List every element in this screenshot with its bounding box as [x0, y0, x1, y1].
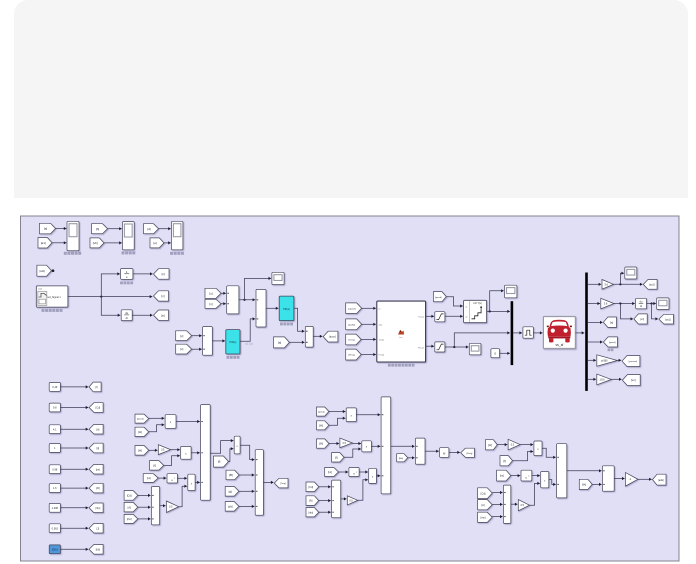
constant block 9.8: [49, 403, 60, 412]
svg-text:3.6: 3.6: [604, 282, 608, 286]
from tag [Preq] plant: [346, 349, 361, 360]
wire productA4 to muxC: [240, 445, 254, 459]
constant block 1: [49, 444, 60, 453]
svg-text:[Treq]: [Treq]: [280, 482, 286, 485]
wire gainC3 to [adis]: [638, 478, 652, 480]
wire mux3 to PID T: [212, 340, 225, 342]
svg-text:[J]: [J]: [97, 527, 100, 530]
wire [rho] to muxB: [138, 518, 151, 520]
wire constant to bus bar1: [500, 352, 510, 354]
wire productA2 to muxA: [191, 452, 200, 454]
integrator block 1/s: [121, 269, 133, 280]
goto tag [f] const: [89, 382, 101, 392]
wire gainC2 to productC2: [530, 483, 540, 505]
from tag [Nb] grpB: [397, 454, 408, 462]
svg-text:[rho]: [rho]: [308, 511, 313, 514]
wire productA1 to muxA: [176, 421, 200, 423]
wire bar2 out6: [588, 378, 596, 380]
svg-text:[d]: [d]: [147, 227, 151, 231]
svg-text:3.6: 3.6: [604, 301, 608, 305]
product block B2: [362, 441, 372, 452]
goto tag [yawrate]: [622, 356, 640, 367]
from tag [H]3 grpC: [579, 479, 592, 489]
from tag [a] group1: [40, 223, 56, 234]
svg-text:1/3.6: 1/3.6: [599, 379, 605, 381]
wire [Cd] to muxB: [138, 494, 151, 496]
wire [e] to scope3: [164, 242, 171, 244]
from tag [speed] lookup: [433, 292, 446, 302]
scope group1: [67, 221, 79, 250]
svg-text:[pedle]: [pedle]: [348, 324, 355, 326]
svg-text:[vx]: [vx]: [328, 470, 332, 474]
constant block 0.363: [49, 524, 60, 533]
svg-text:9.8: 9.8: [53, 407, 57, 410]
svg-text:[vx]: [vx]: [631, 378, 636, 382]
wire builder to [v]: [68, 296, 152, 298]
mux F: [415, 438, 425, 464]
svg-text:[speed]: [speed]: [348, 308, 356, 310]
product block A2: [181, 446, 191, 459]
svg-text:Treq1: Treq1: [379, 338, 385, 341]
svg-text:2: 2: [174, 478, 175, 480]
wire [a] to mux4: [289, 341, 304, 343]
wire [A] to muxE: [319, 500, 331, 502]
label under PID T: [227, 356, 230, 359]
wire sfun Treq1 to saturation1: [426, 315, 434, 317]
scope group2: [122, 222, 134, 250]
wire bar2 out1: [588, 283, 601, 285]
label under S-function: [388, 364, 391, 367]
from tag [H] grpB: [317, 421, 329, 430]
svg-text:[Cd]: [Cd]: [96, 407, 101, 410]
product block B1: [346, 408, 356, 422]
wire gain to [yawrate]: [617, 359, 621, 361]
wire [B] to muxC: [239, 474, 254, 476]
gain 0.5 C2: [518, 500, 529, 511]
wire saturation2 to scope s3: [445, 346, 469, 348]
wire muxF to blockM: [425, 450, 439, 452]
from tag [d] group3: [144, 224, 159, 234]
svg-text:[rho]: [rho]: [481, 516, 486, 519]
wire [H]2 to gainB1: [329, 443, 339, 445]
wire [pedle] to sfun: [362, 323, 376, 325]
wire [v] to mux1: [221, 303, 226, 305]
vertical mux A: [201, 405, 211, 501]
goto tag [ax1] out2: [659, 314, 674, 324]
wire constant 4.1 to [A]: [60, 428, 88, 430]
constant block 0.49: [49, 383, 60, 392]
label under integrator: [120, 282, 123, 285]
svg-text:Preq1: Preq1: [379, 354, 386, 357]
wire [speed] to lookup x1: [446, 297, 463, 306]
math block u^2 B: [349, 468, 359, 477]
wire car to bus bar2: [575, 332, 584, 334]
svg-text:[rho]: [rho]: [95, 507, 100, 510]
from tag [f]2 grpA: [214, 456, 229, 467]
from tag [a1] group1: [38, 238, 52, 249]
from tag [b] group2: [92, 224, 108, 234]
goto tag [vx] out2: [634, 314, 647, 324]
wire gainB1 to productB2: [352, 443, 361, 445]
from tag [f] grpA: [150, 461, 164, 471]
wire muxC to [Treq]: [263, 481, 273, 483]
goto tag [Cd] const: [89, 403, 103, 413]
bus bar 2 (demux): [585, 273, 588, 391]
scope s2: [505, 285, 517, 298]
from tag [vx] grpB: [325, 468, 339, 477]
svg-text:[f]: [f]: [154, 463, 157, 467]
vehicle model block vs_sf with car icon: [543, 317, 575, 349]
2-D lookup table block: [464, 300, 487, 322]
wire [Nb] to muxF: [408, 457, 415, 459]
svg-text:[Af]: [Af]: [96, 487, 100, 490]
wire [rho] to muxH: [492, 516, 502, 518]
mux H: [503, 485, 510, 523]
constant block 1.6: [49, 484, 60, 493]
goto tag [Preq]: [461, 448, 475, 457]
wire u2A to productA3: [177, 477, 187, 479]
wire sfun Preq1 to saturation2: [426, 345, 434, 347]
svg-text:[speed]: [speed]: [609, 342, 616, 344]
svg-text:[Preq]: [Preq]: [349, 354, 355, 357]
svg-text:ted_Signal 1: ted_Signal 1: [47, 296, 61, 299]
svg-text:[vx]: [vx]: [147, 476, 151, 480]
wire branch to scope s4: [620, 273, 624, 284]
math block M: [440, 448, 449, 458]
gain -1 C3: [625, 473, 638, 487]
product block B3: [369, 468, 377, 483]
svg-text:[H]: [H]: [319, 423, 323, 427]
product block C2: [541, 472, 549, 488]
gain 0.5 C1: [508, 439, 520, 450]
wire productB3 to muxD: [376, 475, 380, 477]
svg-text:[Cd]: [Cd]: [308, 486, 313, 489]
from tag [A] grpC: [478, 500, 493, 510]
wire branch to [ax1] second: [652, 304, 659, 319]
svg-text:[H]: [H]: [582, 483, 586, 487]
wire branch to bus bar1 mid: [454, 333, 510, 347]
svg-text:328.6: 328.6: [52, 548, 59, 551]
wire branch to [vx]: [620, 304, 633, 319]
product block C1: [534, 441, 542, 456]
wire [a1] to scope1: [52, 242, 66, 244]
wire branch to scope s2: [490, 291, 504, 312]
from tag [Cd] grpC: [478, 488, 493, 499]
svg-text:2: 2: [356, 472, 357, 474]
svg-text:dt: dt: [126, 316, 128, 320]
gain 0.5 B2: [347, 496, 357, 505]
svg-text:[vx]: [vx]: [500, 474, 504, 478]
wire constant 1 to [g]: [60, 447, 88, 449]
wire rate block to car: [533, 332, 542, 334]
svg-text:[rho]: [rho]: [127, 518, 132, 521]
svg-text:x2: x2: [465, 316, 467, 318]
gain 0.5 B1: [340, 438, 352, 448]
wire [rho] to muxE: [319, 511, 331, 513]
gain 3.6 out2: [601, 298, 614, 309]
from tag [f] grpC: [500, 456, 513, 466]
goto tag [ax1]: [643, 280, 657, 290]
label under scope2: [122, 251, 125, 254]
wire productC2 to muxG: [549, 480, 556, 485]
wire productB2 to muxD: [371, 445, 380, 447]
svg-text:[yawrate]: [yawrate]: [629, 360, 638, 363]
goto tag [acce]: [323, 331, 338, 342]
svg-text:[phi]: [phi]: [228, 505, 233, 508]
goto tag [adis]: [653, 474, 667, 485]
svg-text:[w11]: [w11]: [40, 270, 46, 273]
wire [a] to scope1: [56, 228, 67, 230]
svg-text:[H]: [H]: [138, 448, 142, 452]
wire constant 328.6 to [Kb]: [60, 548, 88, 550]
goto tag [g] const: [89, 443, 103, 453]
from tag [v] ctrl: [205, 299, 221, 308]
wire constant 1.6 to [Af]: [60, 487, 88, 489]
svg-text:x1: x1: [465, 306, 467, 308]
svg-text:pi/180: pi/180: [601, 359, 608, 362]
svg-text:[Nb]: [Nb]: [399, 458, 403, 460]
svg-text:[b]: [b]: [96, 227, 100, 231]
svg-text:[A]: [A]: [128, 505, 131, 509]
wire mux1 to mux2: [239, 299, 255, 301]
mux4: [305, 326, 313, 347]
saturation block 2: [435, 342, 445, 352]
from tag [speed] plant: [346, 303, 362, 314]
svg-text:[vx]: [vx]: [640, 318, 644, 321]
goto tag [vx] out6: [622, 375, 640, 386]
from tag [A] grpB: [306, 496, 319, 506]
wire [H] to gainC1: [497, 444, 507, 446]
from tag [w11]: [37, 265, 52, 276]
wire gainB2 to productB3: [358, 480, 368, 501]
wire constant 9.8 to [Cd]: [60, 407, 88, 409]
constant block 1.208: [49, 503, 60, 512]
constant block 0: [491, 349, 500, 358]
wire muxE to gainB2: [341, 498, 347, 500]
wire mux4 to [acce]: [313, 335, 322, 337]
constant block 4.1: [49, 425, 60, 434]
wire constant 0.49 to [f]: [60, 386, 88, 388]
svg-text:[e]: [e]: [154, 241, 158, 245]
svg-text:[a1]: [a1]: [41, 241, 46, 245]
mux3: [203, 327, 213, 356]
wire [A] to muxH: [492, 503, 502, 505]
rate transition block (square pulse): [523, 327, 533, 338]
product block A4: [234, 436, 240, 454]
svg-text:[H]: [H]: [488, 443, 492, 447]
svg-text:[ax1]: [ax1]: [649, 283, 655, 286]
from tag [phi] grpA: [225, 502, 239, 512]
product block A1: [165, 415, 176, 429]
wire muxG to muxI: [567, 470, 602, 472]
svg-text:[A]: [A]: [309, 499, 312, 503]
wire [Cd] to muxH: [492, 492, 502, 494]
wire [v] to mux3: [192, 335, 202, 337]
wire muxB to gainA2: [160, 505, 166, 507]
mux1: [227, 286, 239, 314]
wire integrator to [x]: [133, 273, 153, 275]
svg-text:1.208: 1.208: [52, 507, 59, 510]
wire constant 1.208 to [rho]: [60, 507, 88, 509]
wire u2C to productC2: [532, 475, 540, 477]
S-function block vehicle powertrain: [377, 301, 426, 362]
wire [b] to scope2: [108, 228, 122, 230]
wire [phi] to muxC: [239, 505, 255, 507]
wire bar2 out5: [588, 359, 596, 361]
wire [d] to scope3: [159, 228, 171, 230]
constant block 328.6: [49, 545, 60, 554]
wire [H]2 to gainA1: [149, 449, 158, 451]
svg-text:[g]: [g]: [97, 447, 100, 450]
wire constant 0.98 to [rw]: [60, 468, 88, 470]
scope s4: [625, 267, 637, 279]
from tag [f] grpB: [332, 453, 344, 462]
from tag [rho] grpC: [478, 512, 493, 522]
svg-text:fcn: fcn: [400, 337, 403, 339]
wire [H] to productB1: [329, 418, 346, 425]
wire bar1 to rate block: [513, 332, 522, 334]
goto tag [A] const: [89, 424, 103, 434]
svg-text:[speed]: [speed]: [137, 419, 144, 421]
from tag [vx] grpC: [497, 470, 511, 481]
from tag [H]2 grpA: [135, 446, 149, 456]
svg-text:4.1: 4.1: [53, 428, 57, 431]
gain 0.5 A2: [166, 501, 178, 512]
wire [H]3 to muxI: [592, 483, 601, 485]
wire bar2 out3: [588, 321, 603, 323]
label under scope1: [64, 252, 67, 255]
wire [vx] to u2A: [158, 477, 166, 479]
math block u^2 A: [167, 474, 177, 483]
wire [f] to productC1: [513, 452, 534, 461]
signal builder block Detect_Signal: [36, 286, 68, 307]
svg-text:[a]: [a]: [44, 227, 48, 231]
wire muxI to gainC3: [614, 478, 624, 480]
from tag [H] grpA: [135, 427, 149, 436]
PID controller block (cyan) T: [226, 330, 240, 354]
top gray card: [14, 0, 688, 198]
wire mux2 to PID B: [266, 307, 278, 309]
wire [Preq] to sfun: [361, 354, 376, 356]
scope s3: [469, 343, 481, 355]
wire [Treq] to sfun: [361, 338, 376, 340]
svg-text:[rw]: [rw]: [96, 468, 100, 471]
label under scope3: [170, 252, 173, 255]
goto tag [a]: [154, 310, 169, 320]
label under signal builder: [42, 309, 45, 312]
wire [f] to productB2: [344, 449, 361, 457]
wire blockM to [Preq]: [449, 451, 460, 453]
wire bar2 out2: [588, 303, 600, 305]
label under [speed]: [608, 349, 611, 352]
wire [Cd] to muxE: [319, 486, 331, 488]
mux B: [151, 487, 159, 525]
wire gainA1 to productA2: [171, 449, 180, 451]
svg-text:2: 2: [528, 476, 529, 478]
svg-text:[g]: [g]: [229, 489, 233, 493]
diagram canvas background: [21, 216, 680, 561]
svg-text:[Cd]: [Cd]: [127, 494, 132, 498]
wire [x] to mux3: [192, 348, 202, 350]
from tag [rho] grpA: [124, 514, 138, 523]
wire [speed] to sfun: [362, 307, 376, 309]
from tag [A] grpA: [124, 502, 138, 512]
svg-text:[Kb]: [Kb]: [96, 548, 101, 551]
wire productC1 to muxG: [542, 448, 556, 457]
wire [x] to mux1: [221, 292, 226, 294]
goto tag [speed] out4: [603, 337, 617, 347]
wire gainA2 to productA3: [179, 486, 187, 507]
svg-text:[f]: [f]: [96, 386, 98, 389]
svg-text:[f]: [f]: [503, 459, 506, 463]
label under PID B: [280, 323, 283, 326]
gain pi/180: [597, 355, 618, 366]
svg-text:[Cd]: [Cd]: [481, 491, 486, 495]
mux I: [602, 466, 614, 491]
from tag [speed] grpB: [317, 407, 329, 416]
wire branch up to integrator: [101, 274, 120, 297]
from tag [vb] group2: [90, 238, 104, 248]
wire derivative to [a]: [132, 314, 152, 316]
from tag [Cd] grpA: [124, 491, 138, 501]
wire gainC1 to productC1: [520, 444, 533, 446]
wire muxD to muxF: [391, 445, 415, 447]
svg-text:Treq1: Treq1: [418, 315, 424, 318]
wire [vb] to scope2: [104, 242, 122, 244]
gain 3.6 out1: [602, 280, 614, 290]
svg-text:[f]: [f]: [218, 460, 221, 464]
bus bar 1 (mux): [511, 301, 514, 365]
wire branch down to derivative: [101, 297, 120, 316]
from tag [x] ctrl: [205, 288, 221, 298]
scope s1: [272, 272, 284, 284]
svg-text:[v]: [v]: [161, 294, 164, 298]
svg-text:[B]: [B]: [229, 473, 233, 477]
svg-text:1.6: 1.6: [53, 487, 57, 490]
svg-text:[acce]: [acce]: [329, 336, 336, 339]
from tag [speed] grpA: [135, 414, 149, 423]
from tag [v] lower: [176, 331, 192, 341]
scope group3: [171, 221, 183, 250]
wire muxH to gainC2: [511, 503, 518, 505]
goto tag [J] const: [89, 523, 103, 533]
svg-text:[adis]: [adis]: [658, 480, 664, 482]
svg-text:dt: dt: [640, 305, 642, 308]
svg-text:[a]: [a]: [278, 341, 282, 345]
svg-text:[x]: [x]: [180, 347, 183, 351]
constant block 0.98: [49, 465, 60, 474]
wire [H] to productA1: [149, 425, 165, 432]
svg-text:[v]: [v]: [180, 334, 183, 338]
wire muxA to productA4: [210, 441, 233, 454]
svg-text:[x]: [x]: [210, 291, 213, 295]
goto tag [Kb] const: [89, 545, 103, 555]
svg-text:[speed]: [speed]: [435, 297, 442, 299]
svg-text:PID(s): PID(s): [230, 341, 237, 344]
svg-text:u1 1u1: u1 1u1: [245, 343, 253, 346]
wire PID T to mux2: [240, 319, 255, 341]
svg-text:[Treq]: [Treq]: [349, 339, 355, 342]
svg-text:0.363: 0.363: [52, 527, 59, 530]
wire gain to [ax1]: [614, 283, 643, 285]
svg-text:[H]: [H]: [319, 442, 323, 446]
from tag [pedle] plant: [346, 319, 362, 330]
wire PID B to mux4: [294, 308, 305, 331]
scope s5: [657, 298, 669, 310]
goto tag [x]: [154, 269, 170, 280]
from tag [vx] grpA: [143, 474, 158, 483]
mux C: [255, 450, 263, 516]
